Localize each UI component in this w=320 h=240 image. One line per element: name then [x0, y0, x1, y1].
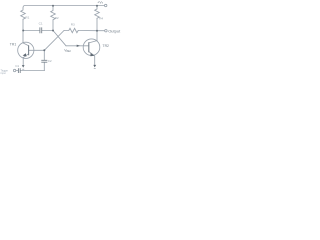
resistor R4: [95, 6, 100, 19]
svg-text:C1: C1: [39, 21, 43, 25]
svg-text:Output: Output: [108, 28, 121, 33]
wire +Vs stub: [97, 5, 104, 7]
wire output stub: [97, 30, 105, 32]
transistor TR1 base bar: [28, 45, 30, 55]
node TR1 collector junction: [22, 30, 24, 32]
node R2 top junction: [52, 5, 54, 7]
transistor TR2 body: [83, 39, 100, 56]
wire TR1 base: [29, 49, 45, 51]
wire trigger input line: [21, 70, 45, 72]
wire TR2 emitter down: [94, 56, 96, 65]
transistor TR1 body: [18, 42, 34, 58]
svg-text:+Vs: +Vs: [97, 0, 103, 4]
ground TR2 (arrow symbol): [93, 65, 96, 68]
arrow VBE2 into TR2 base: [77, 45, 80, 47]
capacitor C2 plates: [41, 60, 47, 62]
transistor TR1 emitter arrow: [23, 53, 27, 56]
transistor TR2 emitter arrow: [90, 53, 94, 56]
resistor R1: [21, 8, 26, 19]
wire TR1 collector node to capacitor C1: [23, 30, 40, 32]
wire TR2 collector diagonal: [89, 41, 97, 43]
node R4 top junction: [96, 5, 98, 7]
wire R3 to output node: [78, 30, 97, 32]
wire TR1 base node down to capacitor C2: [43, 50, 45, 60]
capacitor C3 trigger input plates: [18, 68, 20, 73]
svg-text:C2: C2: [48, 59, 52, 63]
node TR1 base junction: [43, 49, 45, 51]
svg-text:TR2: TR2: [103, 44, 110, 48]
node P timing junction: [52, 30, 54, 32]
svg-text:R2: R2: [55, 16, 59, 20]
terminal +Vs: [105, 4, 107, 6]
wire capacitor C1 to node P: [42, 30, 53, 32]
svg-text:R3: R3: [71, 23, 75, 27]
ground TR1 lower tick: [22, 68, 24, 70]
svg-text:input: input: [1, 72, 7, 75]
svg-text:R1: R1: [25, 15, 29, 19]
wire R2 bottom lead: [52, 20, 54, 31]
wire TR1 collector diagonal: [23, 43, 29, 46]
transistor TR2 base bar: [88, 42, 90, 52]
wire TR1 emitter diagonal: [23, 54, 28, 58]
ground TR2 lower tick: [94, 67, 96, 69]
node output junction: [96, 30, 98, 32]
resistor R2: [51, 6, 56, 20]
svg-text:C1: C1: [15, 64, 19, 68]
wire TR1 emitter down: [22, 58, 24, 66]
svg-text:TR1: TR1: [10, 42, 17, 46]
terminal Trigger input: [13, 69, 15, 71]
wire TR2 base horizontal: [66, 45, 89, 47]
wire top supply rail: [23, 6, 97, 9]
terminal Output: [105, 30, 107, 32]
wire TR2 emitter diagonal: [89, 52, 95, 56]
capacitor C1 plates: [40, 27, 42, 33]
wire trigger terminal to capacitor C1 input: [16, 70, 18, 72]
svg-text:R4: R4: [99, 17, 103, 21]
wire cross-coupling node P to TR2 base (diagonal): [53, 31, 66, 46]
ground TR1 (arrow symbol): [22, 65, 25, 68]
resistor R3: [64, 28, 78, 32]
wire R1 bottom to TR1 collector: [22, 19, 24, 43]
wire cross-coupling R3 to TR1 base (diagonal): [44, 31, 64, 51]
wire R4 bottom to TR2 collector: [96, 18, 98, 40]
wire capacitor C2 to trigger line: [43, 63, 45, 71]
